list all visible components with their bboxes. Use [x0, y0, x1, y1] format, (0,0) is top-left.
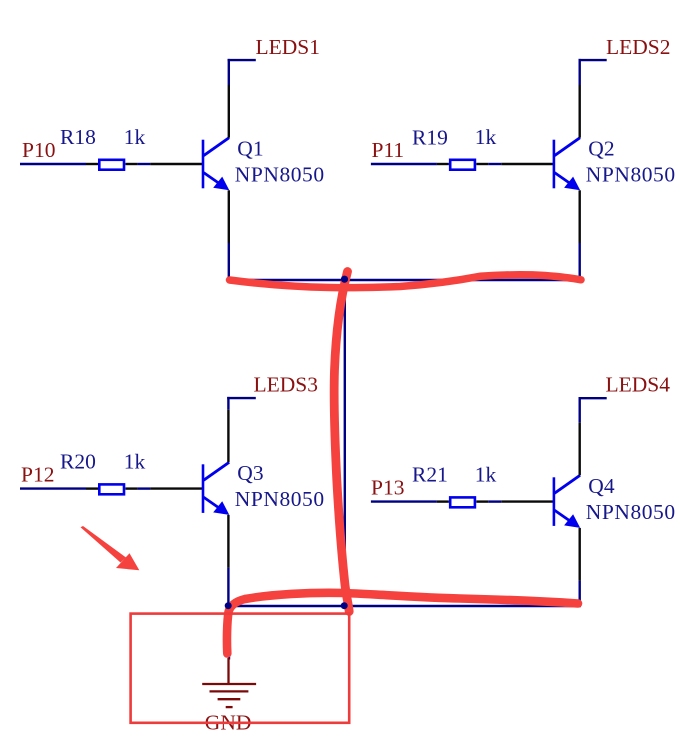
transistor Q2 base bar — [553, 140, 556, 189]
transistor Q3 collector pin — [227, 410, 229, 463]
svg-text:P12: P12 — [21, 462, 54, 486]
transistor Q4 emitter pin — [579, 528, 581, 581]
transistor Q4 collector line — [554, 475, 580, 493]
transistor Q4 base pin — [501, 500, 554, 502]
resistor R18 pin 2 — [125, 163, 137, 165]
wire LEDS3 horizontal — [227, 397, 256, 399]
svg-text:R19: R19 — [412, 126, 448, 150]
svg-text:P11: P11 — [372, 138, 405, 162]
svg-text:NPN8050: NPN8050 — [586, 500, 676, 524]
junction bottom rail — [341, 602, 348, 609]
transistor Q1 collector line — [204, 138, 230, 156]
red marker stroke center vertical — [334, 272, 349, 612]
resistor R21 pin 2 — [476, 500, 488, 502]
wire top emitter rail — [229, 279, 580, 281]
transistor Q4 collector pin — [579, 423, 581, 476]
svg-text:P10: P10 — [22, 138, 55, 162]
transistor Q2 emitter line — [554, 173, 571, 185]
svg-text:LEDS1: LEDS1 — [256, 35, 321, 59]
transistor Q2 collector line — [554, 138, 580, 156]
wire Q2 emitter down — [579, 243, 581, 281]
svg-text:LEDS3: LEDS3 — [254, 373, 319, 397]
svg-text:NPN8050: NPN8050 — [235, 487, 325, 511]
svg-text:NPN8050: NPN8050 — [586, 162, 676, 186]
svg-text:R18: R18 — [60, 125, 96, 149]
transistor Q2 collector pin — [579, 85, 581, 138]
transistor Q4 emitter line — [554, 510, 571, 521]
svg-text:NPN8050: NPN8050 — [235, 162, 325, 186]
resistor R20 body — [99, 484, 124, 494]
ground bar 3 — [218, 698, 241, 700]
wire center vertical — [344, 280, 346, 606]
transistor Q3 emitter line — [204, 497, 221, 509]
red marker stroke on top rail — [230, 275, 582, 288]
wire Q2 collector up — [579, 59, 581, 85]
ground bar 4 — [226, 706, 233, 708]
wire Q4 collector up — [579, 397, 581, 423]
red annotation arrow shaft — [81, 526, 127, 563]
resistor R20 pin 2 — [125, 487, 137, 489]
wire R21 to Q4 base — [488, 500, 501, 502]
wire R19 to Q2 base — [488, 163, 501, 165]
resistor R18 pin 1 — [86, 163, 98, 165]
transistor Q4 emitter arrow — [564, 514, 580, 528]
svg-text:1k: 1k — [124, 125, 146, 149]
junction Q3 emitter — [225, 602, 232, 609]
svg-text:Q4: Q4 — [588, 474, 615, 498]
wire LEDS2 horizontal — [579, 59, 607, 61]
wire LEDS1 horizontal — [228, 59, 256, 61]
svg-text:1k: 1k — [475, 125, 497, 149]
resistor R20 pin 1 — [86, 487, 98, 489]
wire P11 to R19 — [371, 163, 437, 165]
red highlight box around GND — [131, 614, 350, 723]
transistor Q4 base bar — [553, 477, 556, 526]
transistor Q3 emitter arrow — [213, 501, 229, 515]
resistor R21 pin 1 — [437, 500, 449, 502]
transistor Q2 emitter pin — [579, 190, 581, 243]
svg-text:1k: 1k — [124, 450, 146, 474]
transistor Q3 collector line — [204, 462, 230, 480]
red marker stroke bottom rail to ground — [227, 593, 578, 654]
transistor Q1 emitter pin — [228, 190, 230, 243]
transistor Q1 base pin — [150, 163, 203, 165]
resistor R19 pin 1 — [437, 163, 449, 165]
wire P13 to R21 — [371, 500, 437, 502]
resistor R19 pin 2 — [476, 163, 488, 165]
svg-text:R20: R20 — [60, 450, 96, 474]
wire R18 to Q1 base — [137, 163, 150, 165]
svg-text:LEDS2: LEDS2 — [606, 35, 671, 59]
svg-text:Q2: Q2 — [588, 136, 614, 160]
wire LEDS4 horizontal — [579, 397, 607, 399]
svg-text:Q3: Q3 — [237, 461, 263, 485]
wire Q3 emitter down — [227, 568, 229, 608]
junction top rail — [341, 276, 348, 283]
ground stem — [227, 658, 229, 684]
svg-text:LEDS4: LEDS4 — [606, 372, 671, 396]
ground bar 2 — [210, 690, 249, 692]
svg-text:Q1: Q1 — [237, 136, 263, 160]
transistor Q1 emitter line — [204, 173, 221, 185]
red annotation arrow head — [116, 553, 139, 570]
transistor Q1 emitter arrow — [213, 177, 229, 191]
transistor Q2 base pin — [501, 163, 554, 165]
wire P10 to R18 — [20, 163, 86, 165]
ground bar 1 — [202, 683, 256, 685]
wire Q3 collector up — [227, 397, 229, 410]
svg-text:P13: P13 — [371, 475, 404, 499]
transistor Q1 collector pin — [228, 85, 230, 138]
resistor R18 body — [99, 160, 124, 170]
transistor Q2 emitter arrow — [564, 177, 580, 191]
transistor Q1 base bar — [202, 140, 205, 189]
transistor Q3 emitter pin — [227, 515, 229, 568]
svg-text:R21: R21 — [412, 463, 448, 487]
transistor Q3 base bar — [202, 464, 205, 513]
wire Q4 emitter down — [579, 581, 581, 608]
resistor R19 body — [450, 160, 475, 170]
wire Q1 collector up — [228, 59, 230, 85]
wire bottom emitter rail — [228, 605, 579, 607]
transistor Q3 base pin — [150, 487, 203, 489]
wire Q1 emitter down — [228, 243, 230, 281]
resistor R21 body — [450, 497, 475, 507]
wire R20 to Q3 base — [137, 487, 150, 489]
wire P12 to R20 — [20, 487, 86, 489]
svg-text:1k: 1k — [475, 463, 497, 487]
wire stub above ground — [228, 650, 230, 660]
